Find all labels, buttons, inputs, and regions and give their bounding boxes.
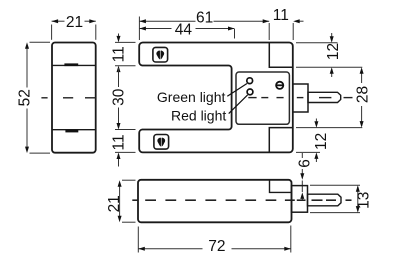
bottom view step notch xyxy=(270,180,292,192)
bottom mounting screw square xyxy=(154,135,169,150)
dimension 11 (top right) xyxy=(269,21,303,40)
svg-text:12: 12 xyxy=(313,133,330,150)
dimension 72 (bottom) xyxy=(138,226,290,253)
left view lower optical window mark xyxy=(65,130,78,133)
leader to red LED xyxy=(229,95,248,114)
svg-text:72: 72 xyxy=(208,238,225,255)
svg-text:6: 6 xyxy=(297,159,314,168)
top right corner block xyxy=(269,43,293,68)
dimension 12 (top right side) xyxy=(296,33,362,77)
main front view outline (fork shape) xyxy=(139,43,293,153)
leader to green LED xyxy=(227,84,247,97)
svg-text:13: 13 xyxy=(355,192,372,209)
left chain: dimension 30 xyxy=(115,68,136,130)
dimension 28 (right side) xyxy=(296,69,362,128)
sensitivity adjuster symbol xyxy=(276,82,283,89)
dimension 61 xyxy=(139,17,269,41)
red indicator LED xyxy=(247,89,253,95)
bottom view centerline xyxy=(132,199,351,201)
top mounting screw square xyxy=(153,47,168,62)
bottom screw glyph xyxy=(157,137,165,147)
main view centerline xyxy=(248,97,352,99)
bottom view connector block xyxy=(292,186,308,213)
svg-text:11: 11 xyxy=(273,7,289,24)
svg-text:44: 44 xyxy=(175,21,193,38)
indicator panel xyxy=(236,72,289,124)
left chain: dimension 11 lower xyxy=(115,152,136,166)
left view upper optical window mark xyxy=(64,63,78,66)
dimension 6 (connector step) xyxy=(301,153,303,201)
svg-text:11: 11 xyxy=(111,134,128,150)
svg-text:Red light: Red light xyxy=(171,107,226,123)
dimension 21 (top of left view) xyxy=(52,21,96,40)
left view lower arm line xyxy=(53,129,96,131)
left side view body xyxy=(52,43,96,153)
bottom view connector shaft xyxy=(308,194,342,206)
top screw glyph xyxy=(156,50,164,60)
svg-text:21: 21 xyxy=(106,195,123,212)
dimension 52 (left of left view) xyxy=(27,42,50,153)
dimension 12 (bottom right side) xyxy=(296,119,320,163)
svg-text:12: 12 xyxy=(325,43,342,60)
left chain: dimension 11 upper xyxy=(115,34,136,66)
connector shaft (main view) xyxy=(308,92,341,102)
bottom view body xyxy=(138,180,292,223)
green indicator LED xyxy=(247,78,253,84)
bottom right corner block xyxy=(269,128,293,153)
svg-text:21: 21 xyxy=(66,14,83,31)
svg-text:52: 52 xyxy=(16,89,33,106)
svg-text:11: 11 xyxy=(111,46,128,62)
dimension 21 (bottom view left) xyxy=(120,180,136,222)
svg-text:61: 61 xyxy=(196,10,213,27)
svg-text:Green light: Green light xyxy=(157,89,226,105)
dimension 44 xyxy=(139,29,234,39)
dimension 13 (bottom view right) xyxy=(310,185,360,212)
svg-text:30: 30 xyxy=(111,88,128,106)
left view upper arm line xyxy=(53,64,96,66)
svg-text:28: 28 xyxy=(355,86,372,103)
connector block (main view) xyxy=(293,84,308,112)
left view centerline xyxy=(41,97,96,99)
